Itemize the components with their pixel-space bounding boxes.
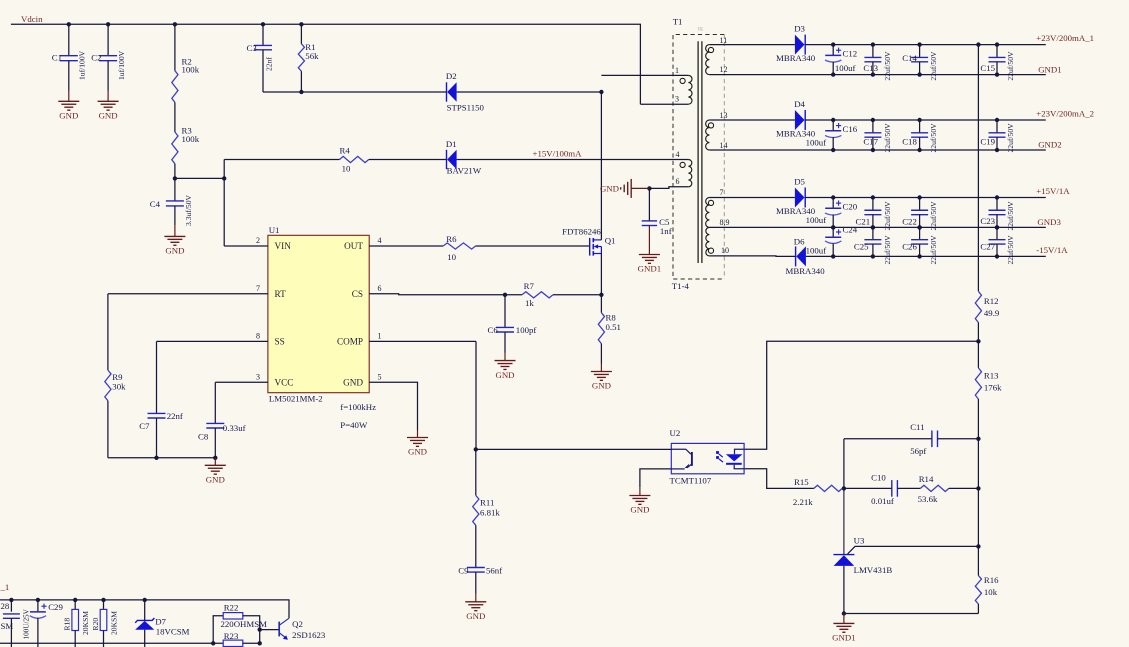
capacitor C7	[156, 341, 158, 413]
node junction C23 top	[995, 195, 999, 199]
svg-text:22uf/50V: 22uf/50V	[883, 51, 892, 81]
resistor R3	[172, 132, 178, 164]
svg-text:C18: C18	[902, 136, 917, 146]
wire feedback node to optocoupler anode	[744, 341, 978, 449]
svg-text:1: 1	[378, 331, 382, 340]
svg-text:GND: GND	[592, 381, 611, 391]
node junction C13 bottom	[871, 72, 875, 76]
svg-text:49.9: 49.9	[984, 308, 1000, 318]
svg-text:100U/25V: 100U/25V	[22, 608, 30, 639]
svg-text:C16: C16	[843, 124, 858, 134]
svg-text:CS: CS	[352, 289, 363, 299]
capacitor C18 22uf/50V	[919, 120, 921, 133]
svg-text:18VCSM: 18VCSM	[156, 626, 190, 636]
resistor R11	[475, 449, 477, 495]
diode D5 MBRA340	[795, 188, 805, 208]
wire pin 11 to D3	[709, 44, 795, 46]
svg-text:22uf/50V: 22uf/50V	[929, 235, 938, 265]
svg-text:LM5021MM-2: LM5021MM-2	[269, 394, 323, 404]
node junction U3 ref	[976, 544, 980, 548]
capacitor C26 22uf/50V	[919, 227, 921, 239]
optocoupler U2 TCMT1107 body	[671, 443, 744, 473]
svg-text:D4: D4	[794, 99, 805, 109]
svg-text:14: 14	[720, 141, 728, 150]
svg-text:C3: C3	[247, 43, 258, 53]
wire R14 node down	[977, 439, 979, 547]
svg-text:6.81k: 6.81k	[480, 508, 500, 518]
svg-text:22uf/50V: 22uf/50V	[883, 235, 892, 265]
node junction pin6/C5/GND	[647, 186, 651, 190]
svg-text:10: 10	[721, 246, 729, 255]
svg-text:56nf: 56nf	[486, 566, 502, 576]
svg-text:GND: GND	[600, 184, 619, 194]
capacitor C3	[262, 24, 264, 45]
svg-text:C10: C10	[871, 473, 886, 483]
svg-text:GND: GND	[408, 447, 427, 457]
svg-text:C17: C17	[863, 136, 878, 146]
ground GND under C8 rail	[214, 458, 216, 466]
U1 pin 4 OUT	[369, 245, 443, 247]
wire VIN node riser to R4 rail	[223, 160, 225, 247]
svg-text:7: 7	[256, 284, 260, 293]
node junction C13 top	[871, 42, 875, 46]
resistor R15	[814, 485, 842, 491]
svg-text:10: 10	[342, 164, 351, 174]
svg-text:R7: R7	[524, 281, 535, 291]
svg-text:100uf: 100uf	[806, 246, 827, 256]
diode D1 BAV21W	[447, 150, 456, 169]
node junction R2 top	[173, 22, 177, 26]
node junction C14 bottom	[917, 72, 921, 76]
svg-text:GND1: GND1	[638, 264, 661, 274]
wire R23 bottom rail	[0, 642, 223, 644]
transformer primary winding pins 1-3	[688, 75, 692, 104]
svg-text:C27: C27	[980, 242, 995, 252]
node junction C19 bottom	[995, 148, 999, 152]
node junction C20 bottom	[831, 225, 835, 229]
svg-text:1nf: 1nf	[660, 226, 672, 236]
svg-text:D1: D1	[446, 139, 457, 149]
diode D2 STPS1150	[447, 82, 456, 101]
svg-text:2SD1623: 2SD1623	[292, 630, 326, 640]
svg-text:C15: C15	[980, 63, 995, 73]
wire D1 to transformer pin 4	[457, 159, 689, 161]
wire R4 to D1	[369, 159, 446, 161]
ground GND under C6	[504, 353, 506, 361]
node junction C27 top	[995, 225, 999, 229]
svg-text:100k: 100k	[182, 134, 200, 144]
svg-text:0.33uf: 0.33uf	[223, 423, 246, 433]
svg-text:C8: C8	[198, 432, 209, 442]
node junction R14 right	[976, 486, 980, 490]
svg-text:100k: 100k	[182, 65, 200, 75]
U1 pin 8 SS	[157, 340, 268, 342]
node junction drain/D2	[599, 90, 603, 94]
svg-text:C4: C4	[150, 199, 161, 209]
node junction C18 bottom	[917, 148, 921, 152]
svg-text:T1: T1	[673, 16, 683, 26]
node junction C15 bottom	[995, 72, 999, 76]
svg-text:53.6k: 53.6k	[918, 494, 938, 504]
node junction R1 bottom	[299, 90, 303, 94]
transformer T1 dashed boundary	[673, 35, 724, 280]
node junction C1 top	[67, 22, 71, 26]
transformer secondary winding pins 7-8	[706, 198, 710, 228]
svg-text:GND: GND	[466, 611, 485, 621]
resistor R14	[920, 485, 948, 491]
svg-text:R6: R6	[446, 234, 457, 244]
ground GND under C4	[174, 225, 176, 236]
svg-text:100uf: 100uf	[806, 138, 827, 148]
svg-text:11: 11	[720, 36, 728, 45]
resistor R7	[505, 294, 522, 296]
capacitor C20 electrolytic 100uf	[832, 198, 834, 209]
node junction VIN riser	[222, 176, 226, 180]
wire R4 rail left	[224, 159, 339, 161]
svg-text:2: 2	[256, 236, 260, 245]
svg-text:22uf/50V: 22uf/50V	[1006, 51, 1015, 81]
capacitor C23 22uf/50V	[996, 198, 998, 211]
svg-text:+15V/100mA: +15V/100mA	[533, 149, 583, 159]
svg-text:1uf/100V: 1uf/100V	[117, 50, 126, 80]
wire opto emitter to ground	[640, 469, 671, 488]
svg-text:C12: C12	[843, 49, 858, 59]
svg-text:R13: R13	[984, 370, 999, 380]
transformer secondary winding pins 11-12	[706, 45, 710, 75]
capacitor C14 22uf/50V	[919, 45, 921, 58]
svg-text:1: 1	[675, 66, 679, 75]
shunt regulator U3 LMV431B	[843, 488, 845, 554]
svg-text:0.01uf: 0.01uf	[871, 496, 894, 506]
svg-text:22uf/50V: 22uf/50V	[883, 201, 892, 231]
svg-text:C2: C2	[91, 53, 101, 63]
svg-text:C22: C22	[902, 217, 917, 227]
capacitor C28 (cut)	[10, 600, 12, 612]
node junction C15 top	[995, 42, 999, 46]
node junction R3/C4	[173, 176, 177, 180]
svg-text:-15V/1A: -15V/1A	[1036, 245, 1068, 255]
wire clamp rail C3/R1 to D2	[263, 91, 446, 93]
svg-text:4: 4	[676, 150, 680, 159]
ground GND at U1 pin 5	[417, 430, 419, 438]
svg-text:22uf/50V: 22uf/50V	[1006, 123, 1015, 153]
svg-text:BAV21W: BAV21W	[447, 166, 482, 176]
svg-text:MBRA340: MBRA340	[786, 266, 826, 276]
svg-text:MBRA340: MBRA340	[776, 53, 816, 63]
ground GND under U2 emitter	[639, 488, 641, 496]
svg-text:1k: 1k	[525, 298, 534, 308]
node junction C22 bottom	[917, 225, 921, 229]
capacitor C8	[214, 382, 216, 423]
node junction R23 right	[258, 641, 262, 645]
svg-text:22uf/50V: 22uf/50V	[929, 123, 938, 153]
svg-text:56pf: 56pf	[910, 446, 926, 456]
svg-text:R16: R16	[984, 575, 999, 585]
node junction Q2 base	[258, 627, 262, 631]
svg-text:GND1: GND1	[832, 633, 855, 643]
svg-text:13: 13	[720, 111, 728, 120]
node junction C25 top	[871, 225, 875, 229]
capacitor C11 56pf	[844, 438, 932, 440]
svg-text:_1: _1	[0, 582, 9, 592]
node junction C17 top	[871, 118, 875, 122]
svg-text:D5: D5	[794, 176, 805, 186]
node junction C22 top	[917, 195, 921, 199]
resistor R20 20KSM box	[103, 600, 105, 610]
capacitor C4	[174, 178, 176, 201]
wire pin 6 to C5 node	[649, 187, 688, 189]
svg-text:SM: SM	[1, 621, 14, 631]
node junction R15/C10/U3	[842, 486, 846, 490]
node junction C8/GND bottom	[213, 456, 217, 460]
svg-text:FDT86246: FDT86246	[562, 226, 601, 236]
wire GND1 rail	[709, 74, 1045, 76]
node junction C29 top	[36, 598, 40, 602]
svg-text:176k: 176k	[984, 382, 1002, 392]
svg-text:U1: U1	[269, 225, 280, 235]
node junction C24 bottom	[831, 254, 835, 258]
svg-text:COMP: COMP	[337, 337, 363, 347]
wire -15V rail	[806, 255, 1046, 257]
resistor R6	[443, 243, 475, 249]
svg-text:R11: R11	[480, 498, 494, 508]
capacitor C2	[107, 24, 109, 55]
node junction R18 top	[73, 598, 77, 602]
diode D4 MBRA340	[795, 110, 805, 130]
svg-text:12: 12	[720, 65, 728, 74]
capacitor C10 0.01uf	[844, 487, 892, 489]
U2 light arrows	[716, 451, 719, 454]
wire R3 to node	[174, 164, 176, 179]
transformer secondary winding pins 9-10	[706, 227, 710, 256]
svg-text:C29: C29	[48, 602, 63, 612]
svg-text:STPS1150: STPS1150	[447, 103, 485, 113]
svg-text:R22: R22	[224, 603, 239, 613]
node junction D7 top	[143, 598, 147, 602]
capacitor C19 22uf/50V	[996, 120, 998, 133]
node junction C24 top	[831, 225, 835, 229]
wire Q1 drain to pin1/D2	[600, 92, 602, 240]
svg-text:LMV431B: LMV431B	[854, 565, 893, 575]
ground GND under C1	[68, 91, 70, 102]
svg-text:GND: GND	[343, 378, 363, 388]
svg-text:C13: C13	[863, 63, 878, 73]
resistor R2	[174, 24, 176, 70]
svg-text:100uf: 100uf	[835, 63, 856, 73]
node junction C28 top	[9, 598, 13, 602]
svg-text:R12: R12	[984, 296, 999, 306]
svg-text:VIN: VIN	[275, 241, 292, 251]
op-amp U1 LM5021MM-2 body	[268, 235, 369, 392]
svg-text:D6: D6	[794, 236, 805, 246]
resistor R22 220OHMSM box	[223, 613, 243, 619]
svg-text:Q1: Q1	[605, 236, 616, 246]
svg-text:5: 5	[378, 372, 382, 381]
svg-text:C23: C23	[980, 216, 995, 226]
svg-text:GND: GND	[630, 505, 649, 515]
svg-text:22nf: 22nf	[167, 411, 183, 421]
svg-text:R9: R9	[112, 372, 123, 382]
svg-text:C1: C1	[52, 53, 62, 63]
svg-text:R15: R15	[794, 477, 809, 487]
capacitor C16 electrolytic 100uf	[832, 120, 834, 131]
node junction C2 top	[106, 22, 110, 26]
wire bottom rail R9/C7/C8	[108, 457, 215, 459]
node junction C26 bottom	[917, 254, 921, 258]
capacitor C12 electrolytic 100uf	[832, 45, 834, 56]
wire +23V_2 rail	[805, 119, 1046, 121]
ground GND sideways at pin 6	[632, 187, 650, 189]
svg-text:C11: C11	[910, 422, 924, 432]
ground GND under R8	[600, 364, 602, 372]
capacitor C17 22uf/50V	[872, 120, 874, 133]
capacitor C13 22uf/50V	[872, 45, 874, 58]
U1 pin 2 VIN	[224, 245, 268, 247]
wire pin 1 to drain	[601, 74, 688, 76]
node junction C20 top	[831, 195, 835, 199]
node junction R12/R13/opto	[976, 339, 980, 343]
svg-text:C9: C9	[458, 566, 469, 576]
node junction C21 top	[871, 195, 875, 199]
resistor R9	[107, 294, 109, 370]
svg-text:28: 28	[1, 601, 10, 611]
node junction COMP/R11	[474, 447, 478, 451]
transistor Q1 FDT86246 MOSFET	[589, 238, 591, 256]
resistor R8	[600, 295, 602, 313]
svg-text:22uf/50V: 22uf/50V	[1006, 235, 1015, 265]
node junction C27 bottom	[995, 254, 999, 258]
svg-text:56k: 56k	[305, 51, 319, 61]
wire pin 3 stub	[640, 103, 688, 105]
svg-text:4: 4	[378, 236, 382, 245]
svg-text:R20: R20	[91, 618, 100, 631]
wire pin 10 to D6	[709, 255, 795, 258]
node junction C26 top	[917, 225, 921, 229]
svg-text:C6: C6	[488, 325, 499, 335]
svg-text:P=40W: P=40W	[340, 420, 368, 430]
svg-text:T1-4: T1-4	[672, 281, 690, 291]
svg-text:3: 3	[256, 372, 260, 381]
svg-text:6: 6	[676, 177, 680, 186]
capacitor C27 22uf/50V	[996, 227, 998, 239]
svg-text:R14: R14	[919, 474, 934, 484]
svg-text:8,9: 8,9	[720, 218, 730, 227]
svg-text:Q2: Q2	[292, 619, 303, 629]
svg-text:SS: SS	[275, 337, 285, 347]
node junction C23 bottom	[995, 225, 999, 229]
svg-text:0.51: 0.51	[606, 322, 621, 332]
svg-text:20KSM: 20KSM	[81, 611, 90, 635]
wire +23V_1 to R12	[977, 45, 979, 292]
capacitor C9 56nf	[467, 567, 485, 569]
resistor R23 box	[223, 640, 243, 646]
svg-text:C20: C20	[843, 201, 858, 211]
node junction C12 top	[831, 42, 835, 46]
node junction R12 top on +23V_1 rail	[976, 42, 980, 46]
svg-text:+15V/1A: +15V/1A	[1036, 186, 1070, 196]
node junction R1 top	[299, 22, 303, 26]
diode D3 MBRA340	[795, 35, 805, 55]
svg-text:+23V/200mA_1: +23V/200mA_1	[1036, 33, 1094, 43]
wire bottom-left top rail	[0, 600, 289, 618]
node junction C21 bottom	[871, 225, 875, 229]
svg-text:C24: C24	[843, 225, 858, 235]
wire GND2 rail	[709, 149, 1045, 151]
svg-text:Vdcin: Vdcin	[21, 14, 43, 24]
svg-text:GND1: GND1	[1038, 64, 1061, 74]
transformer secondary winding pins 13-14	[706, 120, 710, 150]
svg-text:6: 6	[378, 284, 382, 293]
U1 pin 3 VCC	[215, 381, 268, 383]
ground GND1 under U3	[843, 614, 845, 624]
resistor R4	[340, 156, 369, 162]
svg-text:R4: R4	[340, 145, 351, 155]
capacitor C24 electrolytic 100uf	[832, 227, 834, 237]
U2 LED	[735, 449, 745, 454]
svg-text:7: 7	[720, 188, 724, 197]
node junction C19 top	[995, 118, 999, 122]
wire R22 left riser	[213, 616, 223, 644]
svg-text:3: 3	[675, 95, 679, 104]
zener diode D7 18VCSM	[144, 600, 146, 621]
svg-text:3.3uf/50V: 3.3uf/50V	[184, 194, 193, 226]
capacitor C1	[68, 24, 70, 55]
capacitor C25 22uf/50V	[872, 227, 874, 239]
node junction C3 top	[261, 22, 265, 26]
node junction C6 top	[503, 293, 507, 297]
svg-text:OUT: OUT	[344, 241, 363, 251]
svg-text:100uf: 100uf	[806, 215, 827, 225]
node junction C16 bottom	[831, 148, 835, 152]
svg-text:C14: C14	[902, 53, 917, 63]
svg-text:TCMT1107: TCMT1107	[670, 475, 712, 485]
svg-text:30k: 30k	[112, 382, 126, 392]
svg-text:10k: 10k	[984, 587, 998, 597]
transformer T1 core	[697, 41, 699, 263]
node junction U3 anode/GND1	[842, 611, 846, 615]
wire pin 7 to D5	[709, 197, 795, 199]
node junction C25 bottom	[871, 254, 875, 258]
wire R2-R3	[174, 102, 176, 132]
wire COMP to opto collector	[476, 448, 672, 450]
svg-text:10: 10	[447, 252, 456, 262]
ground GND under C2	[107, 91, 109, 102]
svg-text:GND: GND	[59, 111, 78, 121]
svg-text:22nf: 22nf	[265, 57, 274, 71]
capacitor C6	[504, 295, 506, 328]
node junction C17 bottom	[871, 148, 875, 152]
svg-text:VCC: VCC	[275, 378, 294, 388]
wire C11 left riser	[843, 439, 845, 489]
svg-text:R23: R23	[224, 631, 239, 641]
node junction R22 left	[211, 641, 215, 645]
svg-text:C7: C7	[139, 421, 150, 431]
wire top Vdcin rail	[11, 24, 641, 104]
capacitor C29 electrolytic	[37, 600, 39, 612]
wire base wire	[260, 629, 279, 631]
U1 pin 1 COMP	[369, 340, 476, 342]
wire D2 to drain node	[457, 91, 602, 93]
capacitor C22 22uf/50V	[919, 198, 921, 211]
transistor Q2 2SD1623	[278, 622, 280, 637]
wire Q1 source to CS node	[600, 254, 602, 295]
resistor R18 20KSM box	[74, 600, 76, 610]
transformer primary winding pins 4-6	[688, 160, 691, 187]
node junction C11 right	[976, 437, 980, 441]
resistor R16	[977, 546, 979, 575]
node junction C16 top	[831, 118, 835, 122]
node junction source/R7/R8	[599, 293, 603, 297]
